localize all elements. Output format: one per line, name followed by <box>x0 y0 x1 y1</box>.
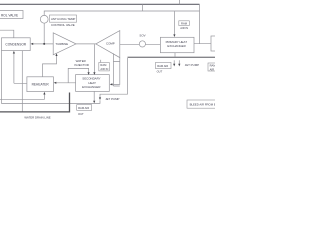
wire: duct tick <box>142 4 144 11</box>
svg-text:OUT: OUT <box>78 112 84 116</box>
svg-text:JET PUMP: JET PUMP <box>105 97 119 101</box>
arrow jet pump down <box>99 97 101 100</box>
primary heat exchanger box <box>160 37 194 52</box>
condensor CONDENSOR <box>2 38 31 51</box>
arrow into condensor bottom <box>13 51 15 54</box>
label box right edge (cut off) <box>208 63 219 71</box>
wire: water injector loop into exchanger top <box>68 68 88 82</box>
top dark line <box>0 3 200 5</box>
wire: turbine outlet to condensor <box>33 43 53 45</box>
svg-text:CONTROL VALVE: CONTROL VALVE <box>51 23 75 27</box>
secondary heat exchanger box <box>76 75 110 92</box>
wire: ram air into primary exchanger <box>173 11 175 34</box>
svg-text:EXCHANGER: EXCHANGER <box>82 85 100 89</box>
svg-text:ANTI-ICING TEMP: ANTI-ICING TEMP <box>51 17 75 21</box>
node junction dot <box>43 43 45 45</box>
arrowheads <box>13 34 181 103</box>
svg-text:JET PUMP: JET PUMP <box>185 63 199 67</box>
svg-text:BLEED AIR FROM E: BLEED AIR FROM E <box>190 102 215 106</box>
right pack box (cut off) <box>211 36 220 51</box>
svg-text:RAM: RAM <box>210 64 215 68</box>
svg-text:TURBINE: TURBINE <box>55 42 68 46</box>
svg-text:SOV: SOV <box>139 34 145 38</box>
arrow into reheater right <box>54 82 57 84</box>
arrows: spray below primary exchanger <box>173 60 175 64</box>
wire: reheater to condensor (arrow up) <box>14 53 27 83</box>
svg-text:REHEATER: REHEATER <box>32 83 50 87</box>
label: ram air in (middle) <box>99 63 110 72</box>
arrow into secondary exchanger top <box>93 72 95 75</box>
water drain dark line <box>0 93 70 112</box>
svg-text:AIR IN: AIR IN <box>100 67 108 71</box>
wire: compressor outlet down to secondary exchanger <box>112 58 120 85</box>
shaft wire <box>76 43 96 45</box>
compressor triangle <box>96 31 120 58</box>
arrow into secondary exchanger right <box>110 83 113 85</box>
wire: top inlet tick <box>179 0 181 4</box>
svg-text:RAM: RAM <box>181 22 188 26</box>
wire: right vertical of top duct <box>199 4 201 43</box>
wire: compressor outlet duct <box>113 53 119 86</box>
wire: secondary exchanger to reheater <box>56 82 76 84</box>
svg-text:CONDENSOR: CONDENSOR <box>5 43 26 47</box>
svg-text:OUT: OUT <box>157 69 163 73</box>
label box: bleed air from engine (cut off right) <box>187 100 220 108</box>
wire: compressor to SOV to primary exchanger <box>120 43 161 45</box>
wire: bleed line to jet pump <box>100 58 128 97</box>
label: ram air out (bottom) <box>77 105 92 116</box>
svg-text:RAM: RAM <box>100 63 107 67</box>
svg-text:RAM AIR: RAM AIR <box>78 106 89 110</box>
svg-text:WATER DRAIN LINE: WATER DRAIN LINE <box>24 115 50 119</box>
svg-text:AIR IN: AIR IN <box>180 26 188 30</box>
SOV valve circle <box>139 41 145 47</box>
arrow into primary exchanger top <box>173 34 175 37</box>
wire: reheater to turbine inlet <box>43 56 57 77</box>
svg-text:INJECTOR: INJECTOR <box>74 63 88 67</box>
svg-text:EXCHANGER: EXCHANGER <box>167 44 185 48</box>
anti-ice valve circle <box>40 15 48 23</box>
arrow water injector into exchanger top <box>88 72 90 75</box>
svg-text:RAM AIR: RAM AIR <box>157 64 168 68</box>
label: ram air out (right of primary) <box>156 62 172 73</box>
arrow into condensor right <box>31 43 34 45</box>
arrow condensate drain down <box>93 101 95 104</box>
svg-text:AIR IN: AIR IN <box>210 67 215 71</box>
wire: primary ram air out <box>174 53 176 58</box>
svg-text:ROL VALVE: ROL VALVE <box>1 13 18 17</box>
arrow into reheater bottom <box>43 92 45 95</box>
bleed air duct line (grey, across right) <box>128 56 216 58</box>
wire: ram air tick into label <box>100 60 102 63</box>
wire: primary exchanger to right pack box <box>194 43 211 45</box>
wire: cabin air line into condensor top <box>0 30 14 38</box>
wire: valve down to turbine line <box>43 23 45 44</box>
arrow into turbine lower edge <box>55 53 57 56</box>
label: ram air in (top right) <box>179 21 190 30</box>
wire: anti-ice bypass line <box>44 11 199 15</box>
spray arrow 2 <box>178 64 180 67</box>
wire: bottom line into reheater <box>0 94 44 99</box>
label box: control valve (cut off left) <box>0 11 23 19</box>
wire: shaft area down into secondary exchanger <box>93 44 95 72</box>
wire: secondary exchanger condensate drain <box>93 91 95 101</box>
svg-text:COMP: COMP <box>106 41 115 45</box>
wire: condensor left drain loop <box>2 51 101 104</box>
spray arrow 1 <box>173 64 175 67</box>
wire: condensor centre drain down to water drain line <box>21 51 23 112</box>
reheater REHEATER <box>27 77 54 92</box>
label box: anti-icing temp control valve <box>50 15 77 27</box>
turbine triangle <box>53 33 76 55</box>
